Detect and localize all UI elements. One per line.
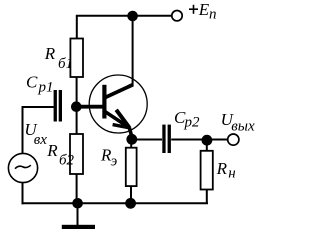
svg-text:б2: б2: [59, 153, 75, 169]
svg-text:э: э: [111, 154, 118, 170]
svg-text:C: C: [26, 73, 38, 92]
svg-text:p2: p2: [184, 115, 201, 131]
svg-text:б1: б1: [58, 56, 73, 72]
svg-text:R: R: [46, 141, 58, 160]
svg-text:E: E: [198, 0, 210, 19]
svg-text:R: R: [216, 159, 228, 178]
svg-text:н: н: [228, 166, 235, 182]
svg-text:вх: вх: [34, 132, 48, 148]
svg-text:p1: p1: [38, 80, 54, 96]
svg-text:n: n: [209, 7, 217, 23]
svg-text:вых: вых: [231, 118, 255, 134]
svg-text:R: R: [44, 44, 56, 63]
